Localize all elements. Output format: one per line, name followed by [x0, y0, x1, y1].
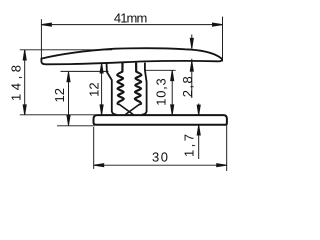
dimensions: [20, 17, 227, 171]
svg-text:14,8: 14,8: [8, 65, 23, 101]
dim 12 inner: dimension line: [101, 63, 103, 115]
right jaw bottom curl: [139, 102, 141, 104]
left jaw (serrated leg under cap): [107, 63, 124, 115]
svg-text:10,3: 10,3: [153, 78, 168, 106]
dim 41mm: right extension line: [222, 17, 224, 62]
dim 12 outer: shoulder extension line: [61, 70, 109, 72]
dim 14,8: dimension line: [24, 50, 26, 115]
dim 12 outer: bottom extension line: [57, 125, 95, 127]
right jaw (serrated leg under cap): [135, 63, 147, 115]
dim 41mm: left extension line: [40, 19, 42, 58]
dim 41mm: dimension line: [41, 24, 222, 26]
svg-text:2,8: 2,8: [180, 76, 195, 97]
dim 2,8: lower leader: [191, 59, 193, 98]
dim 2,8: upper leader: [191, 35, 193, 49]
svg-text:41mm: 41mm: [114, 11, 148, 26]
svg-text:30: 30: [152, 149, 168, 164]
dim 1,7: lower leader: [198, 125, 200, 159]
dim 30: right extension line: [226, 126, 228, 172]
base rail (30 wide): [94, 115, 227, 125]
dim 1,7: upper leader: [198, 104, 200, 116]
dim 30: left extension line: [93, 127, 95, 169]
crossed jaw tips (X): [119, 104, 140, 115]
dim 10,3: top extension line: [145, 69, 176, 71]
svg-text:12: 12: [87, 82, 102, 97]
svg-text:1,7: 1,7: [182, 134, 197, 157]
dim 10,3: dimension line: [171, 71, 173, 115]
dim 30: dimension line: [94, 164, 227, 166]
cap profile (top cover, 41mm wide): [41, 48, 222, 64]
left jaw bottom curl: [117, 102, 119, 104]
dim 14,8: top extension line: [20, 49, 112, 51]
dim 12 outer: dimension line: [68, 72, 70, 126]
svg-text:12: 12: [52, 88, 67, 103]
dim 14,8: bottom extension line: [20, 114, 96, 116]
